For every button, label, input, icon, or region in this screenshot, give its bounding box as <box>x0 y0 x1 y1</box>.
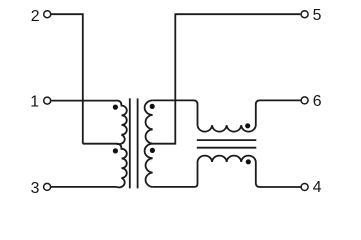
terminal circle pin 5 <box>301 11 308 18</box>
terminal circle pin 2 <box>44 11 51 18</box>
T2 core line top <box>197 139 256 141</box>
svg-text:5: 5 <box>313 7 322 24</box>
svg-text:4: 4 <box>313 179 322 196</box>
phase dot T2 winding B <box>246 159 251 164</box>
transformer T1 secondary lower winding <box>145 144 153 187</box>
T1 core line right <box>137 98 139 188</box>
wire pin3 to T1 primary bottom <box>51 186 117 188</box>
svg-text:1: 1 <box>30 94 39 111</box>
wire T1 secondary bottom to T2 winding B <box>153 162 198 187</box>
wire T1 secondary top to T2 winding A <box>153 100 198 125</box>
wire center-tap junction (left) <box>83 143 117 145</box>
svg-text:6: 6 <box>313 93 322 110</box>
transformer T2 winding A (top, series with T1 secondary) <box>198 100 301 131</box>
terminal circle pin 1 <box>44 97 51 104</box>
terminal circle pin 4 <box>301 184 308 191</box>
terminal circle pin 6 <box>301 97 308 104</box>
phase dot T2 winding A <box>245 123 250 128</box>
wire pin2 to center tap (node CT-P) <box>51 14 83 144</box>
phase dot T1 secondary upper <box>150 104 155 109</box>
transformer T2 winding B (bottom, series to pin 4) <box>198 156 301 187</box>
transformer T1 primary upper winding (pins 1-2) <box>117 101 127 145</box>
wire T1 secondary center tap to pin 5 <box>153 14 301 144</box>
T2 core line bottom <box>197 147 256 149</box>
phase dot T1 primary upper <box>113 105 118 110</box>
transformer T1 secondary upper winding <box>145 100 153 143</box>
svg-text:3: 3 <box>31 180 40 197</box>
T1 core line left <box>129 98 131 188</box>
phase dot T1 primary lower <box>113 148 118 153</box>
phase dot T1 secondary lower <box>150 148 155 153</box>
wire pin1 to T1 primary top <box>51 100 117 102</box>
svg-text:2: 2 <box>31 8 40 25</box>
terminal circle pin 3 <box>44 183 51 190</box>
transformer T1 primary lower winding (pins 2-3) <box>117 144 127 188</box>
